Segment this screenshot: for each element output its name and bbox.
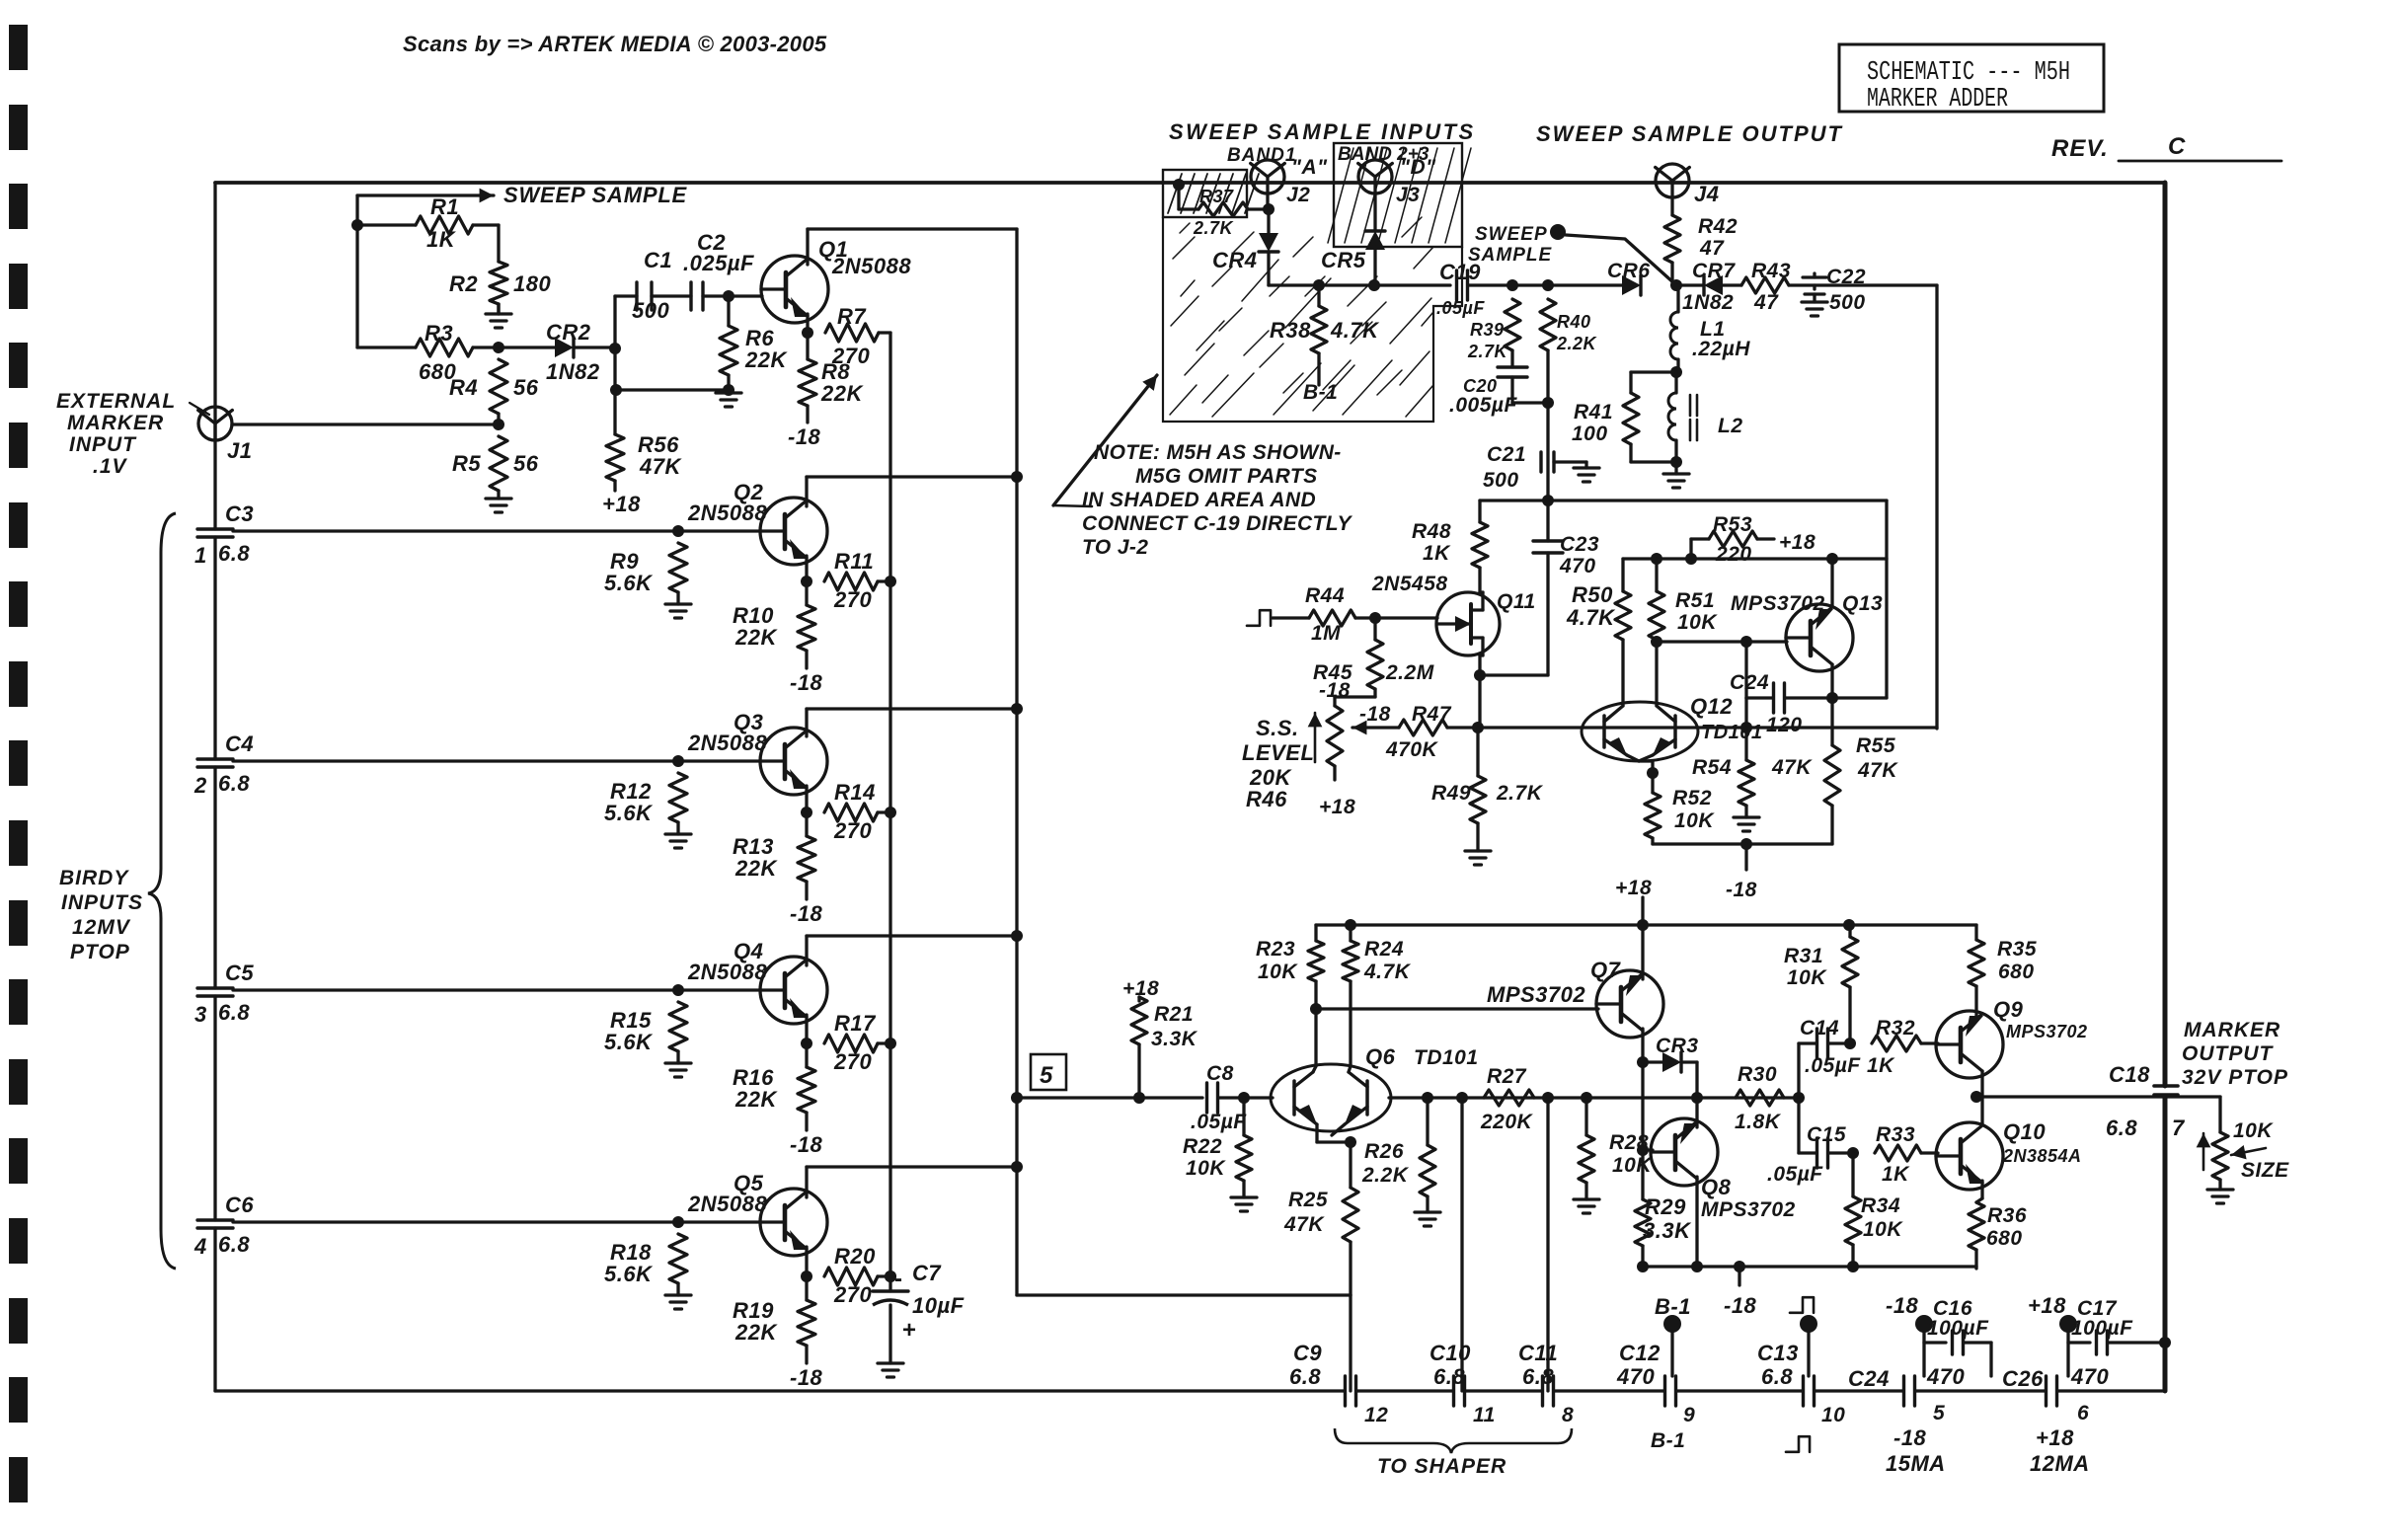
ground R18 (665, 1295, 691, 1309)
svg-text:R51: R51 (1675, 589, 1715, 612)
svg-text:BAND1: BAND1 (1227, 145, 1296, 166)
resistor R43 (1741, 260, 1937, 314)
wire 270 bus x902 (888, 333, 891, 1276)
svg-text:.025µF: .025µF (683, 251, 754, 275)
svg-text:NOTE: M5H AS SHOWN-: NOTE: M5H AS SHOWN- (1094, 441, 1342, 464)
transistor Q9 (1936, 997, 2088, 1078)
transistor Q8 (1651, 1118, 1796, 1221)
wire Q3 emitter (805, 786, 808, 812)
binder hole strip (9, 25, 28, 1502)
svg-text:SWEEP: SWEEP (1475, 224, 1548, 245)
svg-text:C12: C12 (1619, 1341, 1661, 1365)
svg-text:22K: 22K (734, 1320, 778, 1345)
node Q13 base R51 (1651, 636, 1662, 648)
ground R49 (1465, 851, 1491, 865)
node Q12 emitter (1647, 767, 1659, 779)
svg-text:2N5088: 2N5088 (687, 960, 767, 984)
svg-text:MARKER: MARKER (67, 412, 164, 434)
capacitor C16 (1924, 1297, 1991, 1376)
node R31 top (1843, 919, 1855, 931)
node +18 stub (1637, 919, 1649, 931)
svg-text:-18: -18 (790, 901, 823, 926)
node Q7 emitter CR3 (1637, 1056, 1649, 1068)
svg-text:15MA: 15MA (1886, 1451, 1946, 1476)
transistor Q2 (687, 480, 827, 565)
svg-text:C22: C22 (1826, 266, 1866, 288)
svg-text:6.8: 6.8 (1522, 1364, 1554, 1389)
svg-text:R2: R2 (449, 271, 478, 296)
node R39 top (1507, 279, 1518, 291)
svg-text:.1V: .1V (93, 455, 128, 478)
svg-text:11: 11 (1473, 1404, 1496, 1426)
label sweep sample mid (1468, 224, 1553, 266)
svg-text:R11: R11 (834, 549, 874, 574)
svg-text:470: 470 (1926, 1364, 1965, 1389)
svg-text:8: 8 (1562, 1404, 1574, 1426)
resistor R14 (824, 780, 890, 843)
svg-text:47K: 47K (1857, 759, 1898, 782)
capacitor C8 (1191, 1062, 1247, 1133)
svg-text:5.6K: 5.6K (604, 1030, 654, 1054)
wire sweep input row (1269, 283, 1450, 286)
node C20 R40 (1542, 397, 1554, 409)
capacitor C7 (873, 1261, 965, 1363)
wire Q2 emitter (805, 556, 808, 581)
resistor R22 (1183, 1098, 1252, 1197)
svg-text:2.2K: 2.2K (1556, 334, 1598, 353)
svg-text:22K: 22K (734, 856, 778, 881)
svg-text:5.6K: 5.6K (604, 1262, 654, 1286)
svg-text:R47: R47 (1412, 703, 1452, 726)
resistor R31 (1784, 925, 1858, 1043)
resistor R30 (1735, 1063, 1784, 1133)
wire R56 to R6 ground (616, 388, 729, 391)
wire birdy stage C3 row (233, 529, 761, 532)
svg-text:56: 56 (513, 375, 539, 400)
svg-text:B-1: B-1 (1651, 1429, 1685, 1452)
svg-text:Q12: Q12 (1690, 694, 1733, 719)
ground R5 (486, 499, 511, 512)
svg-text:J1: J1 (227, 438, 252, 463)
capacitor C17 (2068, 1297, 2165, 1354)
pulse input symbol (1247, 610, 1271, 626)
wire sweep sample diagonal (1566, 235, 1675, 284)
svg-text:R36: R36 (1987, 1204, 2027, 1227)
node C11 drop (1542, 1092, 1554, 1104)
wire bottom bus (215, 1389, 2165, 1392)
svg-text:-18: -18 (790, 1365, 823, 1390)
svg-text:2.2K: 2.2K (1361, 1164, 1410, 1187)
svg-text:C: C (2168, 133, 2186, 160)
wire -18 bus bottom (1643, 1265, 1976, 1268)
svg-text:-18: -18 (1724, 1293, 1757, 1318)
svg-text:CR5: CR5 (1321, 248, 1366, 272)
svg-text:270: 270 (833, 1049, 872, 1074)
svg-text:1K: 1K (1882, 1163, 1910, 1186)
node Q8 base (1637, 1144, 1649, 1156)
svg-text:47K: 47K (1771, 756, 1813, 779)
svg-text:Q8: Q8 (1701, 1175, 1732, 1199)
resistor R50 (1566, 559, 1631, 703)
svg-text:SWEEP SAMPLE: SWEEP SAMPLE (503, 183, 688, 207)
svg-text:6.8: 6.8 (218, 541, 250, 566)
ground R12 (665, 834, 691, 848)
svg-text:+18: +18 (602, 492, 641, 516)
inductor L2 (1668, 372, 1743, 462)
node C2 R6 Q1base (723, 290, 734, 302)
svg-text:R55: R55 (1856, 734, 1895, 757)
svg-text:IN SHADED AREA AND: IN SHADED AREA AND (1082, 489, 1316, 511)
node R20 C7 (885, 1270, 896, 1282)
node C10 drop (1456, 1092, 1468, 1104)
svg-text:J3: J3 (1396, 184, 1420, 206)
node CR3 R30 Q8 (1691, 1092, 1703, 1104)
svg-text:+18: +18 (1615, 877, 1652, 899)
svg-text:CR4: CR4 (1212, 248, 1258, 272)
resistor R40 (1540, 299, 1598, 403)
capacitor C10 (1429, 1341, 1496, 1426)
node R47 R49 (1472, 722, 1484, 733)
node Q7 base R23 (1310, 1003, 1322, 1015)
capacitor C6 (193, 1193, 254, 1259)
svg-text:.005µF: .005µF (1449, 394, 1517, 417)
svg-text:CR7: CR7 (1692, 260, 1736, 282)
svg-text:22K: 22K (744, 347, 788, 372)
svg-text:6.8: 6.8 (2106, 1116, 2137, 1140)
svg-text:100µF: 100µF (1927, 1317, 1989, 1340)
svg-text:56: 56 (513, 451, 539, 476)
svg-text:R25: R25 (1288, 1189, 1328, 1211)
node R11 right (885, 576, 896, 587)
node R56 tap (610, 384, 622, 396)
ground C21 (1574, 468, 1599, 482)
label birdy inputs (59, 867, 143, 963)
capacitor C18 (2106, 1062, 2186, 1140)
transistor Q4 (687, 939, 827, 1024)
resistor R9 (604, 543, 687, 604)
svg-text:500: 500 (1829, 291, 1866, 314)
svg-text:470K: 470K (1385, 738, 1439, 761)
svg-text:R39: R39 (1470, 320, 1505, 340)
transistor Q5 (687, 1171, 827, 1256)
svg-text:-18: -18 (1893, 1425, 1927, 1450)
node R3 CR2 R4 (493, 342, 504, 353)
label external marker input (56, 390, 209, 478)
svg-text:1K: 1K (1423, 542, 1451, 565)
svg-text:5.6K: 5.6K (604, 801, 654, 825)
resistor R21 (1122, 977, 1198, 1098)
svg-text:SWEEP SAMPLE INPUTS: SWEEP SAMPLE INPUTS (1169, 119, 1476, 144)
svg-text:5.6K: 5.6K (604, 571, 654, 595)
svg-text:10K: 10K (1863, 1218, 1903, 1241)
node -18 stub bottom (1734, 1261, 1745, 1272)
svg-text:C6: C6 (225, 1193, 254, 1217)
wire Q9 emitter (1980, 1071, 1983, 1097)
svg-text:R4: R4 (449, 375, 478, 400)
resistor R38 (1270, 285, 1380, 385)
svg-text:10K: 10K (1258, 961, 1298, 983)
node C8 R22 (1238, 1092, 1250, 1104)
svg-text:R33: R33 (1876, 1123, 1915, 1146)
node R14 right (885, 807, 896, 818)
svg-text:-18: -18 (790, 670, 823, 695)
svg-text:10K: 10K (2233, 1119, 2274, 1142)
transistor Q1 (761, 237, 911, 323)
svg-text:5: 5 (1040, 1062, 1053, 1089)
svg-text:6.8: 6.8 (1761, 1364, 1793, 1389)
svg-text:12: 12 (1364, 1404, 1388, 1426)
svg-text:.05µF: .05µF (1191, 1111, 1247, 1133)
label sweep sample (503, 183, 688, 207)
wire Q12 row (1478, 726, 1937, 729)
connector J4 (1656, 164, 1720, 206)
resistor R5 (452, 436, 539, 499)
potentiometer R46 SS LEVEL (1242, 706, 1355, 818)
node R9 top (672, 525, 684, 537)
node Q13 collector bus (1826, 553, 1838, 565)
svg-text:MPS3702: MPS3702 (1701, 1198, 1796, 1221)
svg-text:B-1: B-1 (1655, 1294, 1691, 1319)
svg-text:2N5088: 2N5088 (831, 254, 911, 278)
svg-text:C26: C26 (2002, 1366, 2044, 1391)
ground R2 (486, 304, 511, 328)
wire Q5 collector (807, 1167, 1017, 1197)
transistor Q10 (1936, 1119, 2082, 1190)
ground C7 (878, 1363, 903, 1377)
terminal B-1 bottom (1655, 1294, 1691, 1376)
node CR2 C1 R56 (609, 343, 621, 354)
svg-text:270: 270 (833, 587, 872, 612)
node collector bus Q3 (1011, 703, 1023, 715)
ground R54 (1734, 817, 1759, 831)
svg-text:9: 9 (1683, 1404, 1695, 1426)
resistor R1 (357, 194, 499, 252)
svg-text:EXTERNAL: EXTERNAL (56, 390, 176, 413)
ground R28 (1574, 1199, 1599, 1213)
svg-text:R27: R27 (1487, 1065, 1527, 1088)
svg-text:6.8: 6.8 (1433, 1364, 1465, 1389)
svg-text:22K: 22K (734, 625, 778, 650)
capacitor C14 (1799, 1017, 1861, 1098)
svg-text:470: 470 (1559, 555, 1596, 577)
node C23 top (1542, 495, 1554, 506)
svg-text:CR3: CR3 (1656, 1035, 1699, 1057)
node R1 left (351, 219, 363, 231)
resistor R51 (1649, 559, 1718, 703)
wire Q4 collector (807, 936, 1017, 965)
label R48 (1412, 520, 1451, 565)
svg-text:220K: 220K (1480, 1111, 1534, 1133)
node C15 R33 R34 (1847, 1147, 1859, 1159)
potentiometer SIZE 10K (2197, 1097, 2290, 1190)
transistor Q3 (687, 710, 827, 795)
svg-text:C11: C11 (1518, 1341, 1558, 1365)
svg-text:680: 680 (1998, 961, 2035, 983)
svg-text:C1: C1 (644, 248, 672, 272)
label marker output (2182, 1019, 2288, 1089)
svg-text:R53: R53 (1713, 513, 1752, 536)
ground R26 (1415, 1212, 1440, 1226)
node collector bus Q2 (1011, 471, 1023, 483)
wire birdy stage C4 row (233, 759, 761, 762)
node C14 R31 R32 (1844, 1038, 1856, 1049)
capacitor C12 (1616, 1341, 1695, 1452)
resistor R2 (449, 225, 551, 314)
svg-text:.05µF: .05µF (1805, 1054, 1861, 1077)
node J2 CR4 (1263, 203, 1275, 215)
ground SIZE pot (2207, 1190, 2233, 1203)
svg-text:C13: C13 (1757, 1341, 1799, 1365)
svg-text:R43: R43 (1751, 260, 1791, 282)
diode CR2 (499, 320, 615, 384)
node R12 top (672, 755, 684, 767)
transistor Q13 (1731, 592, 1883, 671)
ground R15 (665, 1063, 691, 1077)
resistor R48 (1472, 522, 1488, 592)
svg-text:100µF: 100µF (2071, 1317, 2133, 1340)
pulse symbol below C13 (1786, 1436, 1810, 1452)
resistor R56 (606, 348, 682, 491)
svg-text:C9: C9 (1293, 1341, 1322, 1365)
svg-text:Scans by => ARTEK MEDIA © 200: Scans by => ARTEK MEDIA © 2003-2005 (403, 32, 827, 56)
wire C24 up (1744, 642, 1747, 698)
wire Q3 collector (807, 709, 1017, 736)
svg-text:2: 2 (193, 773, 207, 798)
capacitor C26 (2002, 1364, 2109, 1424)
svg-text:MPS3702: MPS3702 (1731, 592, 1825, 615)
svg-text:10K: 10K (1677, 611, 1718, 634)
svg-text:C8: C8 (1206, 1062, 1234, 1085)
capacitor C15 (1767, 1098, 1853, 1186)
svg-text:C20: C20 (1463, 376, 1498, 396)
svg-text:SIZE: SIZE (2241, 1159, 2289, 1182)
node L1 L2 R41 (1670, 366, 1682, 378)
svg-text:TO J-2: TO J-2 (1082, 536, 1148, 559)
svg-text:R1: R1 (430, 194, 459, 219)
wire left bus (213, 183, 216, 1391)
node collector bus Q5 (1011, 1161, 1023, 1173)
resistor R33 (1875, 1123, 1938, 1186)
node Q8 bus (1691, 1261, 1703, 1272)
wire source to R47 (1478, 675, 1481, 728)
svg-text:MPS3702: MPS3702 (1487, 982, 1585, 1007)
node J4 column row289 (1670, 279, 1682, 291)
node top bus R37 (1173, 179, 1185, 191)
svg-text:-18: -18 (1726, 879, 1757, 901)
node collector bus Q4 (1011, 930, 1023, 942)
capacitor C22 (1803, 266, 1866, 314)
resistor R32 (1867, 1017, 1938, 1077)
svg-text:-18: -18 (1359, 703, 1391, 726)
svg-text:C5: C5 (225, 961, 254, 985)
svg-text:47K: 47K (639, 454, 682, 479)
wire -18 bus mid (1653, 842, 1832, 845)
svg-text:2N5088: 2N5088 (687, 731, 767, 755)
node Q13 emitter (1826, 692, 1838, 704)
svg-text:12MV: 12MV (72, 916, 131, 939)
transistor Q7 (1487, 958, 1663, 1038)
svg-text:C21: C21 (1487, 443, 1526, 466)
svg-text:R17: R17 (834, 1011, 877, 1036)
wire Q10 collector (1980, 1097, 1983, 1125)
terminal sweep sample (1550, 224, 1566, 240)
resistor R44 (1273, 584, 1375, 645)
svg-text:6.8: 6.8 (218, 1000, 250, 1025)
wire Q11 top row (1480, 499, 1887, 501)
node Q1 emitter (802, 327, 813, 339)
resistor R42 (1664, 197, 1738, 285)
brace to shaper (1335, 1428, 1572, 1478)
svg-text:+18: +18 (1779, 531, 1816, 554)
brace birdy inputs (148, 513, 176, 1269)
svg-text:47: 47 (1699, 237, 1725, 260)
svg-text:2.7K: 2.7K (1193, 218, 1235, 238)
svg-text:R5: R5 (452, 451, 481, 476)
svg-text:R46: R46 (1246, 787, 1287, 811)
resistor R17 (824, 1011, 890, 1074)
node R24 top (1345, 919, 1356, 931)
svg-text:OUTPUT: OUTPUT (2182, 1042, 2275, 1065)
capacitor C5 (194, 961, 254, 1027)
svg-text:6.8: 6.8 (218, 1232, 250, 1257)
wire bus565 (1623, 557, 1887, 560)
wire row C19 to CR6 (1512, 283, 1622, 286)
svg-text:470: 470 (1616, 1364, 1655, 1389)
svg-text:R31: R31 (1784, 945, 1823, 967)
svg-text:1N82: 1N82 (1682, 291, 1734, 314)
resistor R49 (1431, 728, 1544, 851)
header credit text (403, 32, 827, 56)
svg-text:4.7K: 4.7K (1566, 605, 1616, 630)
svg-text:R35: R35 (1997, 938, 2037, 961)
wire Q13 base (1657, 640, 1787, 643)
ground C22 (1802, 302, 1827, 316)
svg-text:470: 470 (2070, 1364, 2109, 1389)
wire R40 column down (1546, 403, 1549, 500)
resistor R41 (1572, 372, 1676, 462)
capacitor C4 (193, 731, 254, 798)
svg-text:R23: R23 (1256, 938, 1295, 961)
svg-text:C3: C3 (225, 501, 254, 526)
resistor R13 (733, 812, 815, 899)
ground R9 (665, 604, 691, 618)
wire Q1 collector (808, 229, 1017, 265)
wire top bus (215, 181, 2165, 185)
wire Q8 emitter (1695, 1098, 1698, 1127)
svg-text:2.7K: 2.7K (1467, 342, 1509, 361)
svg-text:-18: -18 (790, 1132, 823, 1157)
resistor R55 (1824, 698, 1898, 844)
svg-text:Q13: Q13 (1842, 592, 1883, 615)
node R26 top (1422, 1092, 1433, 1104)
svg-text:TO SHAPER: TO SHAPER (1377, 1455, 1507, 1478)
wire Q7 collector (1641, 925, 1644, 979)
svg-text:TD101: TD101 (1701, 722, 1763, 743)
resistor R34 (1845, 1153, 1903, 1267)
svg-text:7: 7 (2172, 1116, 2186, 1140)
svg-text:680: 680 (1986, 1227, 2023, 1250)
wire Q8 base (1643, 1148, 1653, 1151)
wire J1 to R4 (232, 423, 499, 425)
svg-text:J4: J4 (1694, 182, 1719, 206)
wire -18 stub (1744, 844, 1747, 870)
resistor R35 (1969, 925, 2037, 1020)
ground R6 node (716, 384, 741, 407)
svg-text:R21: R21 (1154, 1003, 1194, 1026)
resistor R11 (824, 549, 890, 612)
label +18 12MA (2030, 1425, 2090, 1476)
svg-text:+: + (902, 1317, 917, 1344)
